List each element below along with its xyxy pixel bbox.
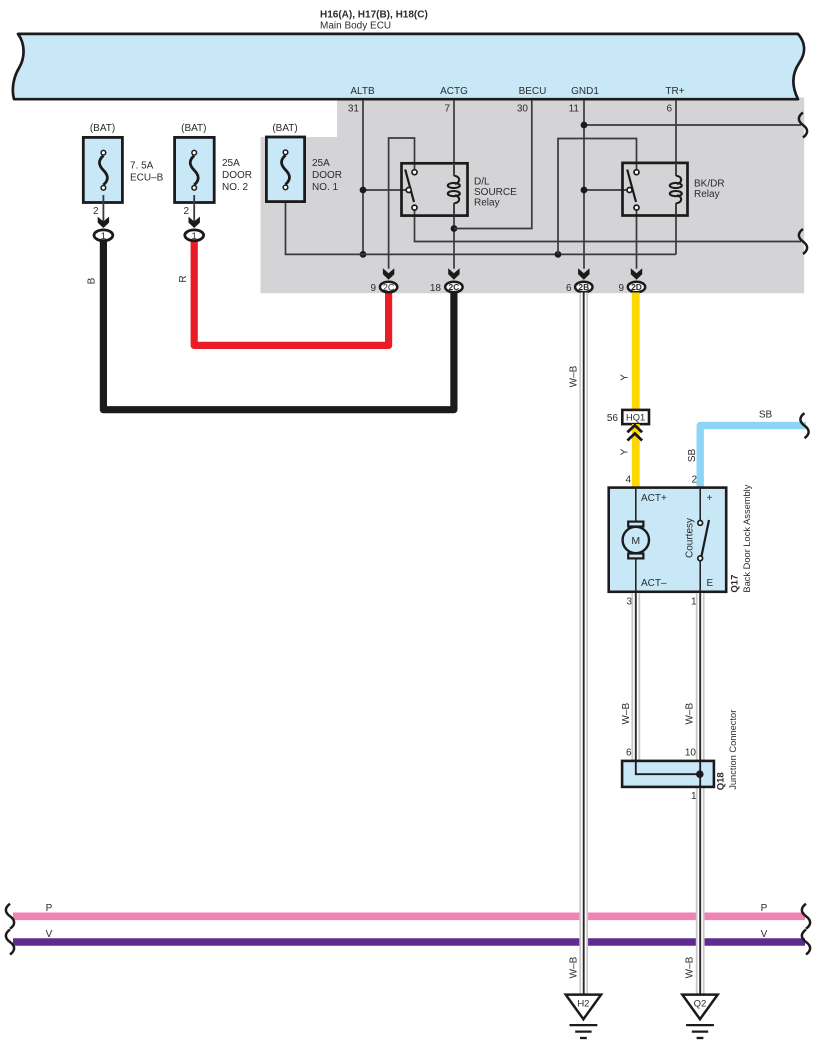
twisted pair chevrons [627, 425, 642, 440]
fuse ECU-B element [99, 150, 107, 190]
svg-text:(BAT): (BAT) [272, 123, 297, 134]
BK/DR relay bottom contact [634, 205, 639, 210]
wire Y yellow lower [632, 424, 640, 489]
wire B black thick [103, 241, 454, 410]
svg-text:6: 6 [666, 104, 672, 115]
svg-text:(BAT): (BAT) [181, 123, 206, 134]
wire ACTG vertical [453, 100, 455, 176]
svg-text:DOOR: DOOR [312, 170, 342, 181]
wire BECU vertical and branch [454, 100, 532, 229]
wire ALTB to D/L relay contact [363, 189, 407, 191]
svg-text:HQ1: HQ1 [626, 412, 645, 422]
svg-text:2C: 2C [448, 282, 459, 292]
svg-text:M: M [631, 535, 640, 547]
connector HQ1 [622, 410, 649, 424]
wire GND1 vertical [583, 100, 585, 269]
svg-text:Q2: Q2 [694, 999, 707, 1010]
wire R red thick [194, 241, 388, 345]
arrow into 2D-9 [631, 268, 642, 279]
motor M [623, 522, 649, 559]
svg-text:2D: 2D [631, 282, 642, 292]
D/L relay switch arm [405, 170, 414, 203]
D/L relay top contact [412, 170, 417, 175]
D/L relay coil leads [453, 163, 455, 215]
Main Body ECU band [13, 34, 804, 99]
BK/DR relay mid contact [627, 188, 632, 193]
svg-text:R: R [178, 275, 189, 282]
relay block shaded area [261, 98, 805, 294]
svg-text:25A: 25A [222, 158, 240, 169]
break squiggle GND1 branch [799, 113, 807, 138]
wire W-B actuator to Q18 [631, 593, 640, 761]
svg-text:H2: H2 [577, 999, 589, 1010]
wire TR+ vertical [675, 100, 677, 176]
svg-text:Q17: Q17 [730, 575, 741, 593]
svg-text:Relay: Relay [694, 189, 720, 200]
node GND1 upper junction [581, 122, 588, 129]
svg-text:25A: 25A [312, 158, 330, 169]
connector oval 2D-9 [628, 282, 645, 293]
svg-text:9: 9 [618, 283, 624, 294]
D/L relay coil [448, 176, 460, 204]
BK/DR relay coil [670, 176, 682, 204]
junction connector Q18 [622, 761, 714, 787]
node ALTB feed junction [360, 251, 367, 258]
svg-text:56: 56 [607, 413, 619, 424]
svg-text:SB: SB [759, 409, 773, 420]
svg-text:11: 11 [569, 104, 580, 115]
node GND1 relay junction [581, 187, 588, 194]
svg-text:7. 5A: 7. 5A [130, 161, 154, 172]
break squiggle relay output [799, 229, 807, 254]
svg-text:V: V [761, 929, 768, 940]
svg-text:SOURCE: SOURCE [474, 187, 517, 198]
svg-text:BK/DR: BK/DR [694, 179, 725, 190]
wire fuse2 to connector [193, 195, 195, 222]
arrow into connector 1 fuse2 [189, 217, 200, 228]
break squiggle V left [6, 930, 14, 955]
relay BK/DR box [623, 163, 688, 216]
Q18 internal right wire [699, 761, 701, 787]
wire D/L relay bottom contact out [415, 210, 802, 242]
svg-text:(BAT): (BAT) [90, 123, 115, 134]
svg-text:NO. 2: NO. 2 [222, 182, 249, 193]
svg-text:Relay: Relay [474, 198, 500, 209]
svg-text:31: 31 [348, 104, 360, 115]
svg-text:6: 6 [626, 747, 632, 758]
svg-text:ECU–B: ECU–B [130, 173, 164, 184]
fuse DOOR NO.1 element [282, 150, 290, 190]
svg-text:Q18: Q18 [716, 772, 727, 790]
ground Q2 [682, 995, 717, 1038]
wire Y yellow upper [632, 293, 640, 412]
wire W-B from 2B to H2 [579, 293, 588, 994]
svg-text:V: V [46, 929, 53, 940]
svg-text:ACTG: ACTG [440, 86, 468, 97]
svg-text:2C: 2C [383, 282, 395, 292]
D/L relay bottom contact [412, 205, 417, 210]
svg-text:2: 2 [691, 474, 697, 485]
wire ALTB vertical [362, 100, 364, 254]
wire GND1 to BK/DR relay contact [584, 189, 627, 191]
motor lead bottom [635, 558, 637, 592]
svg-text:Main Body ECU: Main Body ECU [320, 21, 391, 32]
arrow into 2C-18 [448, 268, 459, 279]
svg-text:TR+: TR+ [665, 86, 684, 97]
node coil bottom junction [451, 225, 458, 232]
svg-text:SB: SB [687, 449, 698, 463]
svg-text:W–B: W–B [684, 703, 695, 725]
svg-text:W–B: W–B [685, 956, 696, 978]
courtesy switch arm [702, 520, 710, 556]
wire P pink bus [13, 912, 805, 920]
connector oval 1 (fuse2) [185, 230, 204, 241]
svg-text:D/L: D/L [474, 177, 490, 188]
svg-text:W–B: W–B [568, 365, 579, 387]
svg-text:B: B [86, 277, 97, 284]
courtesy switch top contact [698, 521, 703, 526]
connector oval 2C-18 [445, 282, 462, 293]
node feed to BK/DR junction [555, 251, 562, 258]
svg-text:P: P [46, 903, 53, 914]
connector oval 2C-9 [380, 282, 397, 293]
fuse DOOR NO.2 box [175, 137, 215, 202]
svg-text:2: 2 [93, 206, 99, 217]
wire fuse DOOR NO.1 feed [286, 190, 677, 254]
svg-text:ACT+: ACT+ [641, 493, 667, 504]
svg-text:10: 10 [685, 747, 697, 758]
svg-text:2: 2 [183, 206, 189, 217]
break squiggle P right [802, 904, 810, 929]
svg-text:Back Door Lock Assembly: Back Door Lock Assembly [742, 484, 752, 592]
wire coil bottom to 2C connector [453, 203, 455, 269]
svg-text:18: 18 [430, 283, 442, 294]
courtesy switch lead top [699, 488, 701, 521]
svg-text:E: E [707, 578, 714, 589]
svg-text:ALTB: ALTB [350, 86, 375, 97]
break squiggle SB [800, 413, 808, 438]
courtesy switch bottom contact [698, 556, 703, 561]
svg-text:BECU: BECU [519, 86, 547, 97]
svg-text:1: 1 [691, 791, 697, 802]
svg-text:W–B: W–B [568, 956, 579, 978]
arrow into 2B-6 [578, 268, 589, 279]
D/L relay mid contact [406, 188, 411, 193]
arrow into 2C-9 [383, 268, 394, 279]
svg-text:DOOR: DOOR [222, 170, 252, 181]
node Q18 junction [696, 770, 704, 778]
svg-text:4: 4 [625, 474, 631, 485]
courtesy switch lead bottom [699, 561, 701, 592]
BK/DR relay top contact [634, 170, 639, 175]
wire BK/DR top contact hook [558, 139, 637, 255]
svg-text:6: 6 [566, 283, 572, 294]
svg-text:9: 9 [370, 283, 376, 294]
wire V violet bus [13, 938, 805, 946]
Q18 internal wire [636, 761, 700, 774]
svg-text:ACT–: ACT– [641, 578, 667, 589]
break squiggle P left [6, 904, 14, 929]
wire fuse1 to connector [102, 195, 104, 222]
fuse DOOR NO.2 element [190, 150, 198, 190]
svg-text:W–B: W–B [621, 703, 632, 725]
svg-text:NO. 1: NO. 1 [312, 182, 339, 193]
BK/DR relay coil leads [675, 163, 677, 216]
wire BK/DR coil bottom down [675, 203, 677, 254]
svg-text:P: P [761, 903, 768, 914]
svg-text:Y: Y [619, 374, 630, 381]
wire W-B courtesy to Q2 [696, 593, 705, 994]
svg-text:30: 30 [517, 104, 529, 115]
svg-text:7: 7 [444, 104, 450, 115]
break squiggle V right [802, 930, 810, 955]
ground H2 [566, 995, 601, 1038]
wire SB sky blue [700, 426, 806, 489]
node ALTB relay junction [360, 187, 367, 194]
svg-text:H16(A), H17(B), H18(C): H16(A), H17(B), H18(C) [320, 10, 428, 21]
relay D/L SOURCE box [402, 163, 468, 215]
wire BK/DR bottom contact to 2D [636, 210, 638, 269]
svg-text:GND1: GND1 [571, 86, 599, 97]
fuse DOOR NO.1 box [266, 137, 304, 202]
svg-text:+: + [707, 493, 713, 504]
connector oval 2B-6 [575, 282, 592, 293]
svg-text:1: 1 [192, 231, 197, 242]
svg-text:Courtesy: Courtesy [685, 518, 696, 558]
BK/DR relay switch arm [627, 170, 636, 203]
connector oval 1 (fuse1) [94, 230, 113, 241]
svg-text:1: 1 [101, 231, 106, 242]
wire GND1 branch right [584, 124, 801, 126]
svg-text:2B: 2B [578, 282, 589, 292]
wire 2C-9 hook to D/L relay top contact [389, 138, 415, 269]
back door lock assembly box Q17 [609, 488, 727, 592]
fuse ECU-B box [83, 137, 122, 202]
arrow into connector 1 fuse1 [98, 217, 109, 228]
svg-text:Junction Connector: Junction Connector [728, 710, 738, 790]
motor lead top [635, 488, 637, 522]
svg-text:Y: Y [619, 448, 630, 455]
